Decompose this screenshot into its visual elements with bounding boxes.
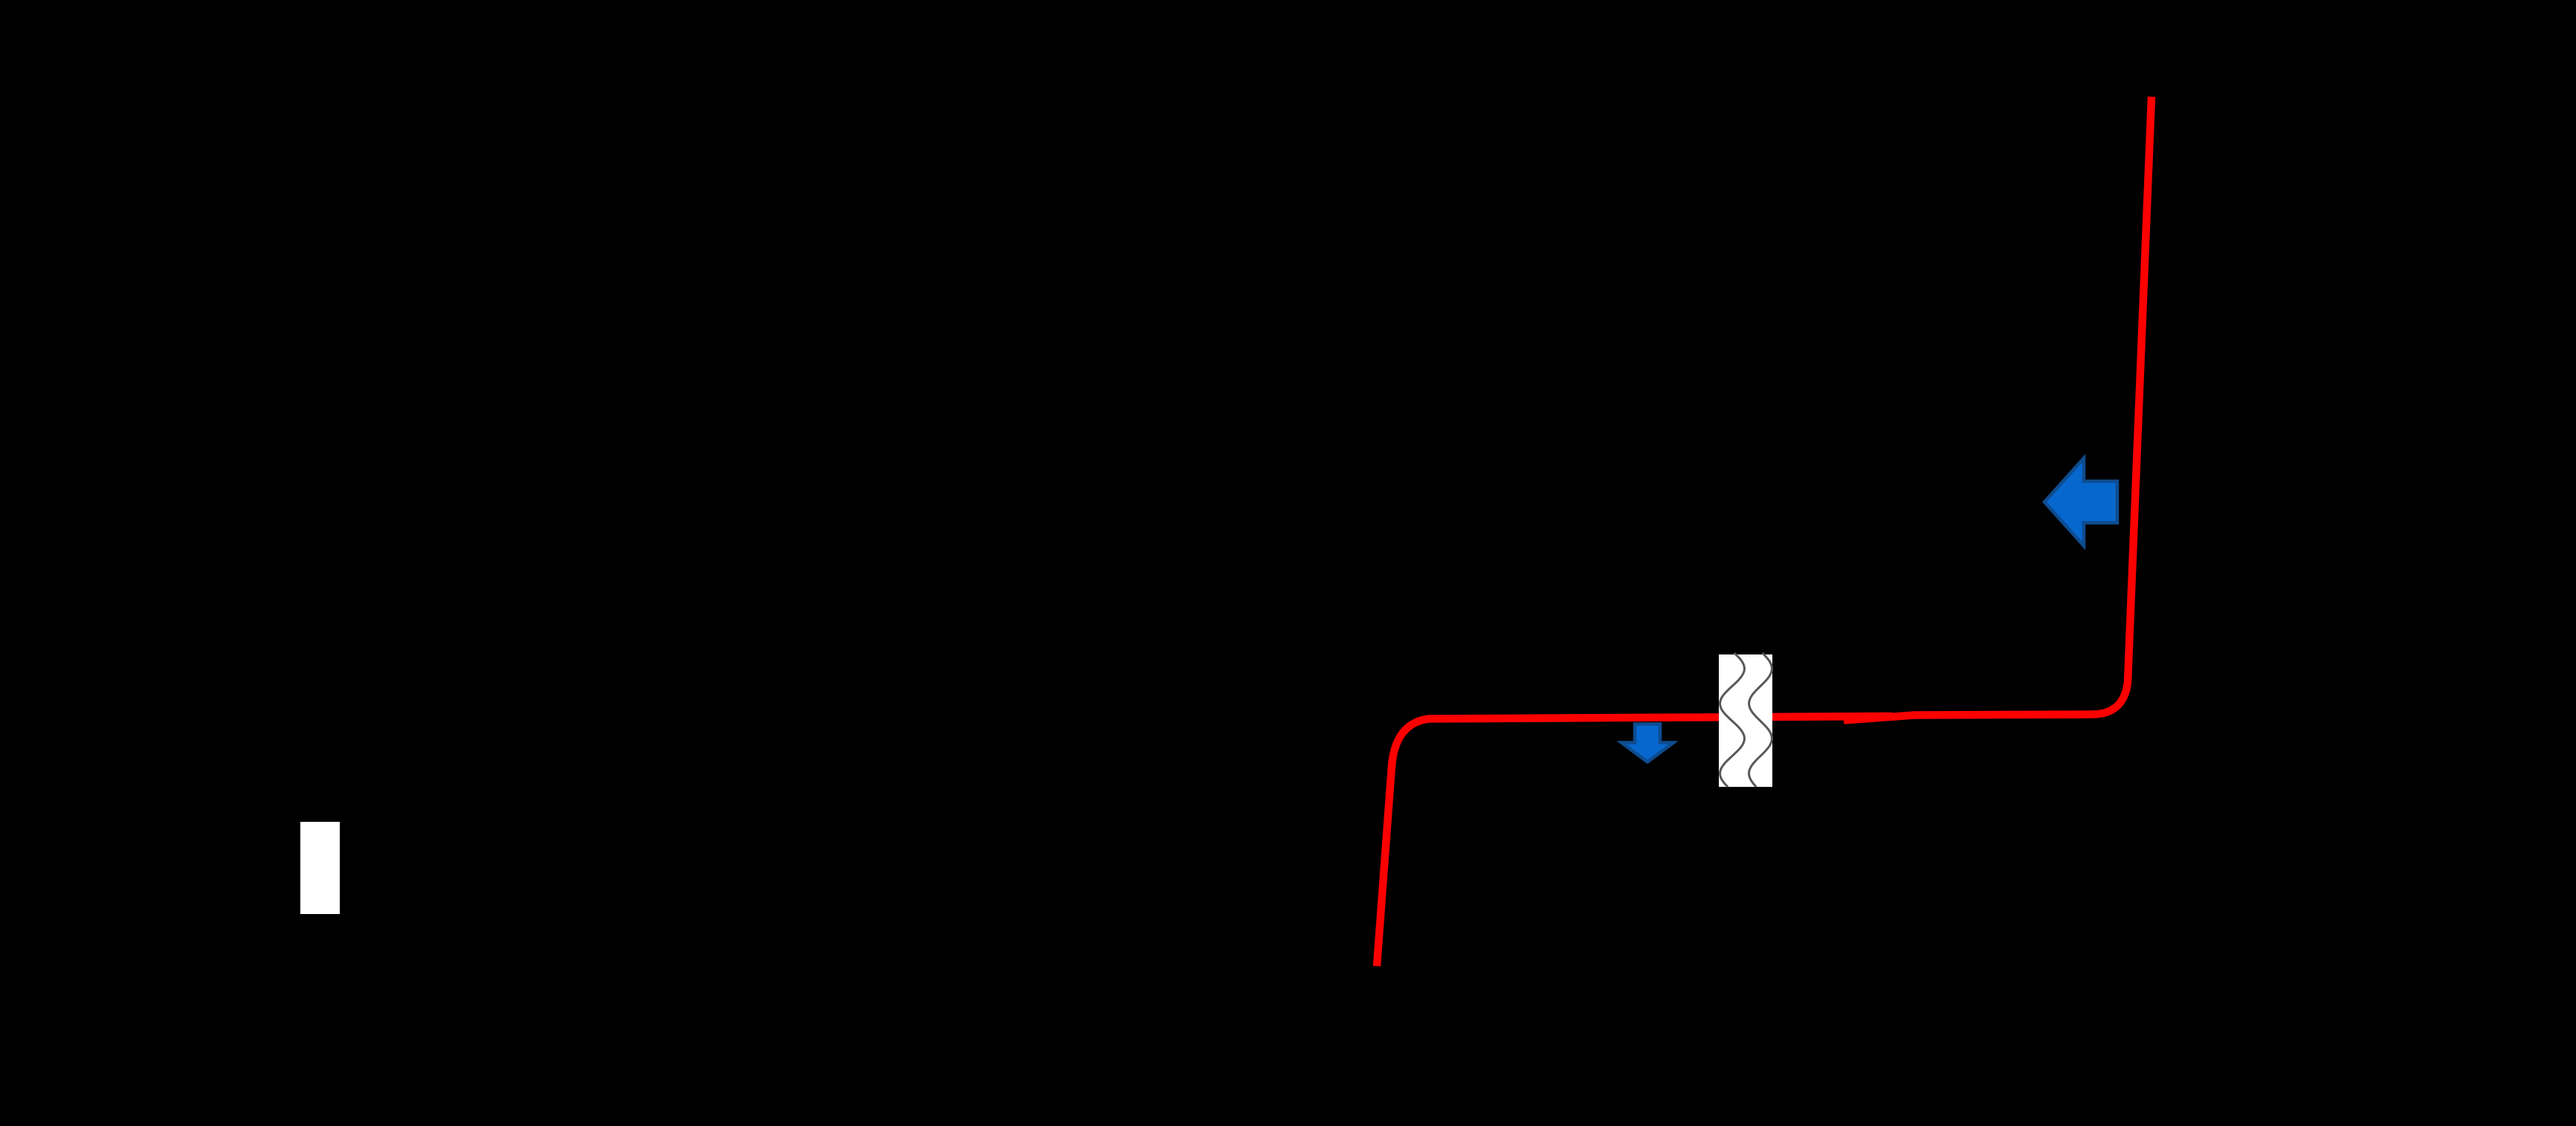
blue left block arrow	[2044, 458, 2117, 546]
axis-break wavy line 2 (right gray squiggle)	[1749, 653, 1772, 787]
white marker rectangle (bottom left)	[300, 822, 340, 914]
red I-V curve: right branch (forward region, rises steeply top-right)	[1844, 97, 2151, 721]
blue down block arrow	[1621, 724, 1673, 762]
axis-break rectangle (white box over curve)	[1719, 654, 1772, 787]
red I-V curve: left branch (reverse region, descends bottom-left)	[1377, 716, 1892, 966]
axis-break wavy line 1 (left gray squiggle)	[1720, 653, 1745, 787]
